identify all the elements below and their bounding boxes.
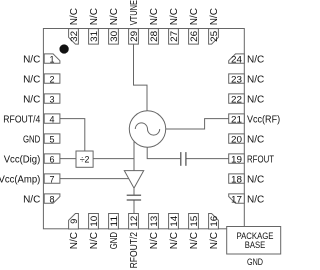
pin 22 box <box>229 94 245 103</box>
svg-text:12: 12 <box>129 216 139 227</box>
svg-text:GND: GND <box>23 135 40 146</box>
svg-text:4: 4 <box>49 114 54 124</box>
svg-text:23: 23 <box>231 74 242 84</box>
pin 24 box <box>229 54 245 63</box>
svg-text:GND: GND <box>247 257 263 267</box>
svg-text:10: 10 <box>89 216 99 227</box>
svg-text:22: 22 <box>231 94 242 104</box>
svg-text:Vcc(Dig): Vcc(Dig) <box>4 155 41 166</box>
wire VCO right to pin21 Vcc(RF) <box>166 119 229 129</box>
svg-text:N/C: N/C <box>209 232 220 249</box>
svg-text:24: 24 <box>231 54 242 64</box>
svg-text:6: 6 <box>49 154 54 164</box>
svg-text:N/C: N/C <box>189 8 200 25</box>
svg-text:N/C: N/C <box>149 8 160 25</box>
svg-text:Vcc(RF): Vcc(RF) <box>247 115 280 126</box>
pin 25 box <box>209 29 219 44</box>
svg-text:7: 7 <box>49 174 54 184</box>
svg-text:9: 9 <box>69 219 79 224</box>
pin 3 box <box>44 94 60 103</box>
pin 8 box <box>44 194 60 203</box>
pin 16 box <box>209 214 219 230</box>
svg-text:28: 28 <box>149 31 159 42</box>
svg-text:RFOUT/2: RFOUT/2 <box>129 232 140 269</box>
pin 17 box <box>229 194 245 203</box>
pin 20 box <box>229 134 245 143</box>
wire pin4 RFOUT/4 to divider top <box>60 119 85 151</box>
svg-text:17: 17 <box>231 194 242 204</box>
svg-text:N/C: N/C <box>69 8 80 25</box>
svg-text:32: 32 <box>69 31 79 42</box>
svg-text:N/C: N/C <box>169 232 180 249</box>
pin 30 box <box>109 29 119 44</box>
svg-text:N/C: N/C <box>247 175 264 186</box>
svg-text:19: 19 <box>231 154 242 164</box>
svg-text:20: 20 <box>231 134 242 144</box>
wire pin7 Vcc(Amp) to amp <box>60 178 129 180</box>
svg-text:13: 13 <box>149 216 159 227</box>
pin 11 box <box>109 214 119 230</box>
svg-text:5: 5 <box>49 134 54 144</box>
VCO sine wave <box>135 123 159 135</box>
pin 6 box <box>44 154 60 163</box>
svg-text:N/C: N/C <box>247 75 264 86</box>
svg-text:27: 27 <box>169 31 179 42</box>
pin 18 box <box>229 174 245 183</box>
svg-text:N/C: N/C <box>23 195 40 206</box>
pin 31 box <box>89 29 99 44</box>
svg-text:8: 8 <box>49 194 54 204</box>
pin 7 box <box>44 174 60 183</box>
svg-text:VTUNE: VTUNE <box>129 0 140 25</box>
svg-text:N/C: N/C <box>69 232 80 249</box>
pin 26 box <box>189 29 199 44</box>
svg-text:18: 18 <box>231 174 242 184</box>
amplifier A1 triangle <box>124 171 143 189</box>
svg-text:15: 15 <box>189 216 199 227</box>
pin 4 box <box>44 114 60 123</box>
svg-text:29: 29 <box>129 31 139 42</box>
svg-text:N/C: N/C <box>247 95 264 106</box>
pin 23 box <box>229 74 245 83</box>
svg-text:26: 26 <box>189 31 199 42</box>
svg-text:N/C: N/C <box>149 232 160 249</box>
svg-text:N/C: N/C <box>247 195 264 206</box>
wire cap C1 to pin19 RFOUT <box>186 158 228 160</box>
pin 9 box <box>69 214 79 230</box>
svg-text:÷2: ÷2 <box>80 154 90 164</box>
pin 10 box <box>89 214 99 230</box>
svg-text:N/C: N/C <box>23 95 40 106</box>
pin 21 box <box>229 114 245 123</box>
svg-text:N/C: N/C <box>23 55 40 66</box>
pin 29 box <box>129 29 139 44</box>
svg-text:25: 25 <box>209 31 219 42</box>
pin 12 box <box>129 214 139 230</box>
svg-text:31: 31 <box>89 31 99 42</box>
capacitor C2 (series, to RFOUT/2) <box>127 195 141 200</box>
svg-text:N/C: N/C <box>189 232 200 249</box>
pin 15 box <box>189 214 199 230</box>
svg-text:N/C: N/C <box>209 8 220 25</box>
pin 1 box <box>44 54 60 63</box>
svg-text:N/C: N/C <box>23 75 40 86</box>
svg-text:RFOUT: RFOUT <box>247 155 274 166</box>
wire VCO output down to amp A1 <box>133 141 135 170</box>
svg-text:N/C: N/C <box>247 55 264 66</box>
pin 32 box <box>69 29 79 44</box>
wire VCO bottom to coupling cap C1 <box>147 147 180 159</box>
wire pin6 Vcc(Dig) to divider <box>60 158 76 160</box>
package outline <box>43 29 244 229</box>
capacitor C1 (series, to RFOUT) <box>181 152 186 166</box>
pin 13 box <box>149 214 159 230</box>
svg-text:RFOUT/4: RFOUT/4 <box>3 115 40 126</box>
pin 14 box <box>169 214 179 230</box>
svg-text:1: 1 <box>49 54 54 64</box>
svg-text:21: 21 <box>231 114 242 124</box>
svg-text:3: 3 <box>49 94 54 104</box>
wire cap C2 to pin12 RFOUT/2 <box>133 201 135 214</box>
oscillator VCO circle <box>129 111 165 147</box>
svg-text:14: 14 <box>169 216 179 227</box>
svg-text:Vcc(Amp): Vcc(Amp) <box>0 175 40 186</box>
svg-text:11: 11 <box>109 216 119 227</box>
pin 1 indicator dot <box>59 44 68 53</box>
svg-text:30: 30 <box>109 31 119 42</box>
svg-text:N/C: N/C <box>247 135 264 146</box>
svg-text:GND: GND <box>109 232 120 249</box>
svg-text:16: 16 <box>209 216 219 227</box>
wire divider output to node <box>93 158 134 160</box>
svg-text:BASE: BASE <box>245 240 266 250</box>
svg-text:2: 2 <box>49 74 54 84</box>
divider U1 (divide by 2) box <box>76 151 93 167</box>
pin 5 box <box>44 134 60 143</box>
pin 27 box <box>169 29 179 44</box>
svg-text:N/C: N/C <box>89 232 100 249</box>
wire amp to cap C2 <box>133 188 135 195</box>
pin 19 box <box>229 154 245 163</box>
pin 28 box <box>149 29 159 44</box>
wire VTUNE pin29 to VCO top <box>134 44 148 111</box>
svg-text:N/C: N/C <box>169 8 180 25</box>
svg-text:N/C: N/C <box>89 8 100 25</box>
pin 2 box <box>44 74 60 83</box>
package base paddle box <box>227 227 281 255</box>
svg-text:N/C: N/C <box>109 8 120 25</box>
